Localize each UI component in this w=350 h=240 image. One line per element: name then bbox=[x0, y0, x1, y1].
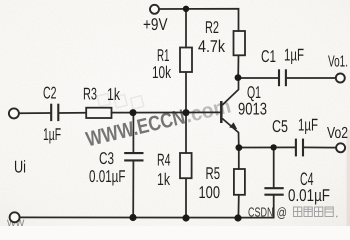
svg-text:10k: 10k bbox=[152, 63, 171, 82]
wire R2 bottom to collector node bbox=[237, 55, 239, 77]
node input junction after R3 (C3 tap) bbox=[130, 109, 137, 116]
watermark CSDN bbox=[248, 205, 287, 221]
svg-text:C5: C5 bbox=[272, 117, 288, 136]
node C4 tap junction bbox=[270, 144, 276, 150]
svg-text:4.7k: 4.7k bbox=[198, 37, 225, 56]
wire R1 to base node bbox=[185, 72, 187, 113]
svg-text:1µF: 1µF bbox=[298, 116, 318, 135]
node ground rail junction R5 bbox=[234, 214, 241, 221]
svg-text:R3: R3 bbox=[83, 85, 97, 104]
wire input to C2 bbox=[19, 112, 51, 114]
wire C3 branch upper bbox=[132, 113, 134, 153]
capacitor C1 bbox=[279, 69, 286, 86]
scan tint right edge bbox=[347, 130, 350, 226]
terminal Vo2 bbox=[336, 143, 345, 152]
wire R4 lower bbox=[185, 178, 187, 218]
wire bottom rail bbox=[19, 216, 273, 218]
terminal Vo1 bbox=[336, 74, 345, 83]
node ground rail junction R4 bbox=[182, 214, 189, 221]
wire C1 to Vo1 bbox=[286, 77, 336, 79]
svg-text:1k: 1k bbox=[107, 85, 120, 104]
node collector junction bbox=[235, 74, 242, 81]
svg-text:@: @ bbox=[277, 205, 288, 220]
terminal ground left bbox=[10, 212, 20, 222]
svg-text:Vo1.: Vo1. bbox=[328, 54, 348, 71]
node base junction bbox=[183, 109, 190, 116]
wire top rail bbox=[159, 9, 239, 31]
svg-text:R5: R5 bbox=[206, 164, 221, 183]
wire R3 to base bar bbox=[112, 111, 221, 113]
capacitor C2 bbox=[51, 104, 58, 121]
svg-text:R2: R2 bbox=[205, 18, 219, 37]
resistor R3 bbox=[86, 108, 111, 118]
node ground rail junction C3 bbox=[129, 214, 136, 221]
svg-text:R4: R4 bbox=[157, 151, 171, 170]
wire R1 drop bbox=[185, 9, 187, 48]
watermark CSDN pseudo hanzi bbox=[294, 207, 338, 217]
wire C5 to Vo2 bbox=[303, 146, 336, 148]
node +9V rail junction bbox=[183, 6, 189, 12]
resistor R4 bbox=[180, 153, 192, 178]
svg-text:1k: 1k bbox=[157, 170, 170, 189]
capacitor C3 bbox=[124, 153, 143, 160]
svg-text:0.01µF: 0.01µF bbox=[288, 186, 330, 205]
resistor R1 bbox=[180, 48, 192, 73]
watermark blocks near R3 bbox=[97, 86, 144, 116]
resistor R2 bbox=[234, 31, 246, 55]
wire emitter node to C5 bbox=[239, 146, 296, 148]
svg-text:Vo2: Vo2 bbox=[327, 125, 348, 142]
svg-text:C3: C3 bbox=[99, 149, 114, 168]
wire C4 branch lower bbox=[273, 195, 275, 218]
terminal input Ui bbox=[9, 108, 19, 118]
capacitor C4 bbox=[264, 188, 283, 195]
wire C4 branch upper bbox=[273, 148, 275, 189]
transistor Q1 emitter arrow bbox=[229, 122, 237, 129]
svg-text:0.01µF: 0.01µF bbox=[89, 167, 126, 186]
svg-text:1µF: 1µF bbox=[43, 125, 61, 144]
svg-text:9013: 9013 bbox=[238, 100, 267, 119]
resistor R5 bbox=[234, 169, 245, 195]
capacitor C5 bbox=[296, 139, 303, 157]
wire C2 to R3 bbox=[59, 112, 87, 114]
svg-text:CSDN: CSDN bbox=[248, 205, 274, 220]
wire R5 lower bbox=[237, 195, 239, 218]
terminal +9V bbox=[150, 5, 159, 14]
svg-text:+9V: +9V bbox=[143, 15, 168, 34]
wire C3 branch lower bbox=[132, 161, 134, 218]
svg-text:C2: C2 bbox=[43, 84, 57, 103]
node emitter junction bbox=[236, 144, 243, 151]
svg-text:C1: C1 bbox=[261, 47, 276, 66]
wire R5 upper bbox=[238, 148, 240, 170]
svg-text:100: 100 bbox=[199, 183, 221, 202]
watermark www.ECCN bbox=[84, 94, 233, 151]
wire R4 upper bbox=[185, 113, 187, 154]
wire collector node to C1 bbox=[238, 77, 279, 79]
svg-text:1µF: 1µF bbox=[284, 46, 304, 65]
svg-text:Ui: Ui bbox=[14, 158, 26, 177]
transistor Q1 bbox=[221, 78, 239, 148]
